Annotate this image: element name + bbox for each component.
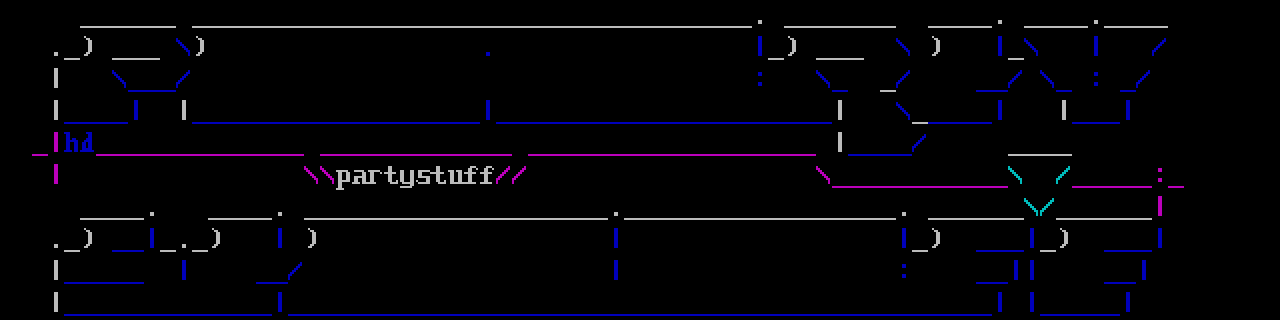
colon row 2 col 68 blue bbox=[1094, 72, 1098, 86]
underscore run row 6 cols 39-55 gray bbox=[624, 218, 896, 220]
letter f row 5 col 29 gray bbox=[464, 166, 478, 184]
backslash row 1 col 64 blue bbox=[1024, 38, 1038, 56]
underscore run row 3 cols 58-61 blue bbox=[928, 122, 992, 124]
pipe row 3 col 30 blue bbox=[486, 100, 490, 120]
backslash row 2 col 7 blue bbox=[112, 70, 126, 88]
slash row 5 col 32 magenta bbox=[512, 166, 526, 184]
underscore run row 0 cols 64-67 gray bbox=[1024, 26, 1088, 28]
underscore row 2 col 66 blue bbox=[1056, 90, 1072, 92]
underscore run row 5 cols 67-71 magenta bbox=[1072, 186, 1152, 188]
pipe row 9 col 62 blue bbox=[998, 292, 1002, 312]
underscore run row 3 cols 31-51 blue bbox=[496, 122, 832, 124]
pipe row 8 col 11 blue bbox=[182, 260, 186, 280]
dot row 0 col 47 gray bbox=[758, 20, 762, 24]
pipe row 6 col 72 magenta bbox=[1158, 196, 1162, 216]
letter s row 5 col 26 gray bbox=[416, 170, 432, 184]
underscore row 7 col 65 gray bbox=[1040, 250, 1056, 252]
pipe row 9 col 64 blue bbox=[1030, 292, 1034, 312]
backslash row 5 col 51 magenta bbox=[816, 166, 830, 184]
backslash row 1 col 11 blue bbox=[176, 38, 190, 56]
slash row 6 col 65 cyan bbox=[1040, 198, 1054, 216]
pipe row 3 col 11 gray bbox=[182, 100, 186, 120]
pipe row 4 col 52 gray bbox=[838, 132, 842, 152]
underscore run row 1 cols 51-53 gray bbox=[816, 58, 864, 60]
dot row 6 col 9 gray bbox=[150, 212, 154, 216]
slash row 2 col 11 blue bbox=[176, 70, 190, 88]
pipe row 8 col 38 blue bbox=[614, 260, 618, 280]
backslash row 1 col 56 blue bbox=[896, 38, 910, 56]
pipe row 3 col 70 blue bbox=[1126, 100, 1130, 120]
underscore run row 1 cols 7-9 gray bbox=[112, 58, 160, 60]
pipe row 1 col 62 blue bbox=[998, 36, 1002, 56]
pipe row 7 col 72 blue bbox=[1158, 228, 1162, 248]
underscore row 7 col 4 gray bbox=[64, 250, 80, 252]
letter f row 5 col 30 gray bbox=[480, 166, 494, 184]
underscore run row 8 cols 16-17 blue bbox=[256, 282, 288, 284]
pipe row 8 col 63 blue bbox=[1014, 260, 1018, 280]
underscore row 3 col 57 gray bbox=[912, 122, 928, 124]
underscore run row 0 cols 69-72 gray bbox=[1104, 26, 1168, 28]
pipe row 7 col 56 blue bbox=[902, 228, 906, 248]
colon row 2 col 47 blue bbox=[758, 72, 762, 86]
dot row 1 col 30 blue bbox=[486, 52, 490, 56]
pipe row 9 col 3 gray bbox=[54, 292, 58, 312]
pipe row 5 col 3 magenta bbox=[54, 164, 58, 184]
paren row 7 col 66 gray bbox=[1060, 228, 1068, 248]
backslash row 5 col 20 magenta bbox=[320, 166, 334, 184]
paren row 1 col 5 gray bbox=[84, 36, 92, 56]
dot row 0 col 62 gray bbox=[998, 20, 1002, 24]
underscore row 1 col 48 gray bbox=[768, 58, 784, 60]
underscore run row 9 cols 65-69 blue bbox=[1040, 314, 1120, 316]
letter u row 5 col 28 gray bbox=[448, 170, 464, 184]
letter a row 5 col 22 gray bbox=[352, 170, 368, 184]
pipe row 8 col 64 blue bbox=[1030, 260, 1034, 280]
dot row 1 col 3 gray bbox=[54, 52, 58, 56]
underscore run row 4 cols 33-50 magenta bbox=[528, 154, 816, 156]
paren row 7 col 19 gray bbox=[308, 228, 316, 248]
underscore row 2 col 52 blue bbox=[832, 90, 848, 92]
pipe row 4 col 3 magenta bbox=[54, 132, 58, 152]
underscore run row 0 cols 5-10 gray bbox=[80, 26, 176, 28]
colon row 5 col 72 magenta bbox=[1158, 168, 1162, 182]
slash row 2 col 56 blue bbox=[896, 70, 910, 88]
underscore run row 6 cols 13-16 gray bbox=[208, 218, 272, 220]
slash row 5 col 31 magenta bbox=[496, 166, 510, 184]
underscore run row 4 cols 53-56 blue bbox=[848, 154, 912, 156]
letter t row 5 col 24 gray bbox=[384, 166, 398, 184]
underscore run row 6 cols 5-8 gray bbox=[80, 218, 144, 220]
pipe row 3 col 52 gray bbox=[838, 100, 842, 120]
underscore run row 0 cols 12-46 gray bbox=[192, 26, 752, 28]
underscore run row 3 cols 12-29 blue bbox=[192, 122, 480, 124]
underscore row 7 col 12 gray bbox=[192, 250, 208, 252]
underscore row 2 col 70 blue bbox=[1120, 90, 1136, 92]
paren row 1 col 58 gray bbox=[932, 36, 940, 56]
paren row 7 col 58 gray bbox=[932, 228, 940, 248]
pipe row 3 col 8 blue bbox=[134, 100, 138, 120]
slash row 8 col 18 blue bbox=[288, 262, 302, 280]
underscore run row 8 cols 61-62 blue bbox=[976, 282, 1008, 284]
underscore run row 6 cols 58-63 gray bbox=[928, 218, 1024, 220]
underscore run row 5 cols 52-62 magenta bbox=[832, 186, 1008, 188]
underscore row 4 col 2 magenta bbox=[32, 154, 48, 156]
pipe row 2 col 3 gray bbox=[54, 68, 58, 88]
underscore row 1 col 4 gray bbox=[64, 58, 80, 60]
underscore run row 6 cols 19-37 gray bbox=[304, 218, 608, 220]
pipe row 3 col 66 gray bbox=[1062, 100, 1066, 120]
pipe row 7 col 17 blue bbox=[278, 228, 282, 248]
underscore row 2 col 55 gray bbox=[880, 90, 896, 92]
underscore run row 7 cols 61-63 blue bbox=[976, 250, 1024, 252]
dot row 6 col 56 gray bbox=[902, 212, 906, 216]
backslash row 5 col 19 magenta bbox=[304, 166, 318, 184]
underscore run row 3 cols 67-69 blue bbox=[1072, 122, 1120, 124]
pipe row 7 col 38 blue bbox=[614, 228, 618, 248]
backslash row 2 col 51 blue bbox=[816, 70, 830, 88]
underscore run row 9 cols 4-16 blue bbox=[64, 314, 272, 316]
pipe row 9 col 70 blue bbox=[1126, 292, 1130, 312]
underscore run row 4 cols 63-66 gray bbox=[1008, 154, 1072, 156]
pipe row 9 col 17 blue bbox=[278, 292, 282, 312]
paren row 7 col 5 gray bbox=[84, 228, 92, 248]
pipe row 3 col 62 blue bbox=[998, 100, 1002, 120]
underscore row 1 col 63 gray bbox=[1008, 58, 1024, 60]
dot row 7 col 3 gray bbox=[54, 244, 58, 248]
paren row 1 col 49 gray bbox=[788, 36, 796, 56]
underscore run row 9 cols 18-61 blue bbox=[288, 314, 992, 316]
underscore run row 7 cols 7-8 blue bbox=[112, 250, 144, 252]
underscore run row 0 cols 49-55 gray bbox=[784, 26, 896, 28]
underscore row 7 col 57 gray bbox=[912, 250, 928, 252]
underscore run row 3 cols 4-7 blue bbox=[64, 122, 128, 124]
pipe row 1 col 68 blue bbox=[1094, 36, 1098, 56]
pipe row 1 col 47 blue bbox=[758, 36, 762, 56]
slash row 1 col 72 blue bbox=[1152, 38, 1166, 56]
underscore run row 2 cols 61-62 blue bbox=[976, 90, 1008, 92]
letter t row 5 col 27 gray bbox=[432, 166, 446, 184]
pipe row 7 col 64 blue bbox=[1030, 228, 1034, 248]
dot row 6 col 38 gray bbox=[614, 212, 618, 216]
letter d row 4 col 5 blue bbox=[80, 132, 94, 152]
underscore run row 7 cols 69-71 blue bbox=[1104, 250, 1152, 252]
slash row 5 col 66 cyan bbox=[1056, 166, 1070, 184]
letter r row 5 col 23 gray bbox=[368, 170, 382, 184]
underscore run row 6 cols 66-71 gray bbox=[1056, 218, 1152, 220]
backslash row 6 col 64 cyan bbox=[1024, 198, 1038, 216]
backslash row 2 col 65 blue bbox=[1040, 70, 1054, 88]
pipe row 3 col 3 gray bbox=[54, 100, 58, 120]
colon row 8 col 56 blue bbox=[902, 264, 906, 278]
pipe row 8 col 71 blue bbox=[1142, 260, 1146, 280]
dot row 6 col 17 gray bbox=[278, 212, 282, 216]
slash row 2 col 63 blue bbox=[1008, 70, 1022, 88]
underscore run row 2 cols 8-10 blue bbox=[128, 90, 176, 92]
underscore run row 8 cols 69-70 blue bbox=[1104, 282, 1136, 284]
pipe row 7 col 9 blue bbox=[150, 228, 154, 248]
underscore run row 4 cols 6-18 magenta bbox=[96, 154, 304, 156]
paren row 1 col 12 gray bbox=[196, 36, 204, 56]
slash row 2 col 71 blue bbox=[1136, 70, 1150, 88]
dot row 0 col 68 gray bbox=[1094, 20, 1098, 24]
slash row 4 col 57 blue bbox=[912, 134, 926, 152]
paren row 7 col 13 gray bbox=[212, 228, 220, 248]
underscore row 5 col 73 magenta bbox=[1168, 186, 1184, 188]
letter h row 4 col 4 blue bbox=[64, 132, 78, 152]
underscore run row 4 cols 20-31 magenta bbox=[320, 154, 512, 156]
pipe row 8 col 3 gray bbox=[54, 260, 58, 280]
backslash row 5 col 63 cyan bbox=[1008, 166, 1022, 184]
letter p row 5 col 21 gray bbox=[336, 170, 350, 190]
underscore run row 8 cols 4-8 blue bbox=[64, 282, 144, 284]
underscore run row 0 cols 58-61 gray bbox=[928, 26, 992, 28]
backslash row 3 col 56 blue bbox=[896, 102, 910, 120]
letter y row 5 col 25 gray bbox=[400, 170, 414, 188]
underscore row 7 col 10 gray bbox=[160, 250, 176, 252]
dot row 7 col 11 gray bbox=[182, 244, 186, 248]
